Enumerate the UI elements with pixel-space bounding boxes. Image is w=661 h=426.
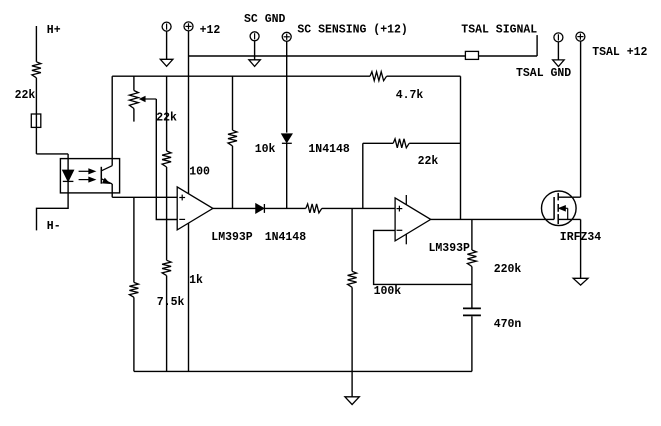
svg-text:+12: +12 (200, 24, 221, 37)
wire ground stub (351, 371, 353, 397)
resistor 220k (467, 250, 476, 267)
wire U2 inverting input feedback (374, 230, 472, 284)
fuse F2 on TSAL SIGNAL line (465, 51, 478, 59)
svg-text:10k: 10k (255, 143, 276, 156)
wire diode D2 cathode to output node (286, 143, 288, 208)
wire U1 V- pin to ground rail (188, 223, 190, 371)
svg-text:1N4148: 1N4148 (308, 143, 350, 156)
wire wiper to U1 inverting input (156, 99, 177, 220)
potentiometer 22k body (129, 91, 138, 109)
ground symbol (MOSFET source) (573, 278, 588, 285)
wire resistor 10k to output node (232, 146, 234, 209)
wire feedback junction (362, 143, 364, 208)
terminal pad SC SENSING (282, 32, 291, 41)
wire resistor 100k to ground rail (351, 287, 353, 371)
terminal pad SC GND (250, 32, 259, 41)
svg-text:100k: 100k (374, 285, 402, 298)
diode D1 1N4148 (256, 204, 264, 213)
svg-text:22k: 22k (418, 155, 439, 168)
optocoupler LED anode wire (67, 154, 69, 170)
ground symbol TSAL GND (553, 60, 565, 67)
resistor 1k (162, 260, 171, 275)
fuse F1 on H+ line (31, 114, 41, 127)
optocoupler phototransistor (100, 167, 102, 184)
svg-text:470n: 470n (494, 318, 522, 331)
potentiometer bottom stub (133, 109, 135, 122)
svg-text:SC SENSING (+12): SC SENSING (+12) (297, 23, 407, 36)
terminal pad +12 (184, 22, 193, 31)
wire optocoupler emitter to U1 non-inverting input (111, 184, 113, 197)
wire +12 horizontal rail (to TSAL SIGNAL fuse) (189, 55, 538, 57)
svg-text:TSAL GND: TSAL GND (516, 67, 571, 80)
ground symbol (left supply) (160, 59, 173, 66)
wire junction to resistor 7.5k (133, 197, 135, 282)
resistor 22k (feedback) (393, 139, 409, 148)
svg-text:TSAL +12: TSAL +12 (592, 46, 647, 59)
svg-text:SC GND: SC GND (244, 13, 286, 26)
wire MOSFET source to ground (580, 219, 582, 278)
wire output node to resistor 220k (471, 219, 473, 250)
svg-text:4.7k: 4.7k (396, 89, 424, 102)
wire feedback horizontal left (363, 142, 393, 144)
resistor 7.5k (129, 282, 138, 297)
svg-text:LM393P: LM393P (429, 242, 471, 255)
wire optocoupler collector to +12 box rail (111, 76, 113, 166)
optocoupler OK1 body (60, 159, 119, 193)
wire diode D1 to series resistor (264, 207, 305, 209)
svg-text:100: 100 (189, 165, 210, 178)
transistor Q1 IRFZ34 (542, 191, 577, 226)
wire 22k to fuse to optocoupler (35, 78, 37, 154)
resistor 100 (162, 151, 171, 167)
wire TSAL +12 to MOSFET drain (580, 41, 582, 197)
capacitor 470n (463, 307, 481, 309)
op-amp U1 LM393P (177, 187, 213, 230)
wire LED cathode to H- (37, 181, 69, 230)
resistor 10k pull-up wire (232, 76, 234, 130)
resistor 10k (228, 130, 237, 146)
wire U2 output to MOSFET gate (431, 218, 554, 220)
wire resistor 7.5k to ground rail (133, 297, 135, 371)
resistor 100k (348, 271, 357, 287)
optocoupler light arrow 1 (79, 170, 91, 172)
svg-text:22k: 22k (15, 89, 36, 102)
wire U1 output to diode D1 (213, 207, 256, 209)
svg-text:1k: 1k (189, 274, 203, 287)
wire TSAL SIGNAL stub (536, 35, 538, 56)
wire resistor 100 to resistor 1k (166, 167, 168, 260)
wire series resistor to U2 non-inverting input (322, 207, 395, 209)
wire junction down to comparator U2 output node (460, 76, 462, 219)
optocoupler light arrow 2 (79, 179, 91, 181)
svg-text:LM393P: LM393P (211, 231, 253, 244)
wire SC SENSING vertical to diode D2 (286, 41, 288, 132)
op-amp U2 LM393P (395, 198, 431, 241)
optocoupler LED (63, 170, 74, 181)
terminal pad (supply ground pin) (162, 22, 171, 31)
svg-text:1N4148: 1N4148 (265, 231, 307, 244)
ground symbol SC GND (249, 60, 261, 67)
potentiometer wiper arrow (145, 98, 157, 100)
wire +12 vertical to op-amp U1 V+ pin (188, 31, 190, 194)
wire resistor 1k to ground rail (166, 276, 168, 372)
resistor 22k (H+ series) (32, 62, 41, 78)
wire resistor 220k to capacitor (471, 267, 473, 308)
svg-text:H+: H+ (47, 24, 61, 37)
terminal pad TSAL GND (554, 33, 563, 42)
ground symbol (main) (345, 397, 359, 405)
wire capacitor to ground rail (471, 316, 473, 371)
wire +12 sub-rail (right segment) (387, 75, 461, 77)
wire rail to potentiometer (133, 76, 135, 90)
terminal pad TSAL +12 (576, 32, 585, 41)
resistor 4.7k (370, 72, 387, 81)
wire H+ down (35, 26, 37, 62)
wire +12 sub-rail (left segment) (112, 75, 370, 77)
wire rail to resistor 100 (166, 76, 168, 151)
svg-text:TSAL SIGNAL: TSAL SIGNAL (461, 23, 537, 36)
wire node to resistor 100k (351, 208, 353, 271)
series resistor to U2 input (306, 204, 322, 213)
svg-text:H-: H- (47, 220, 61, 233)
wire feedback horizontal right (409, 142, 460, 144)
svg-text:7.5k: 7.5k (157, 296, 185, 309)
svg-text:220k: 220k (494, 263, 522, 276)
wire ground rail (bottom) (134, 370, 472, 372)
diode D2 1N4148 (vertical clamp) (282, 134, 292, 142)
